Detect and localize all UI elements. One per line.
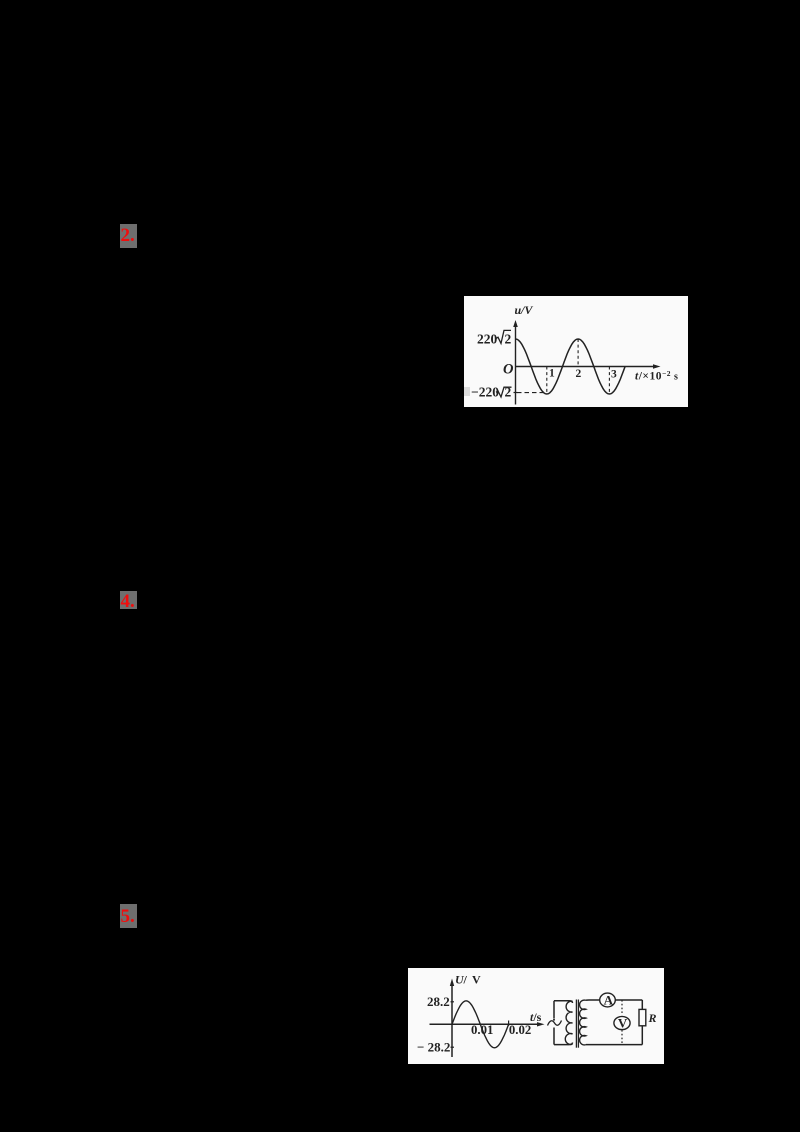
- wire: primary left conductor (bottom half): [553, 1028, 555, 1045]
- svg-text:V: V: [618, 1016, 628, 1031]
- svg-text:/V: /V: [520, 303, 533, 317]
- svg-text:t/s: t/s: [530, 1010, 542, 1024]
- figure: U-t graph + transformer circuit: [408, 968, 664, 1064]
- dashed line to trough t=1: [517, 392, 547, 394]
- wire: primary top: [554, 1001, 573, 1003]
- dashed vertical t=3: [608, 367, 610, 394]
- transformer core line 1: [575, 1000, 577, 1048]
- svg-text:V: V: [472, 973, 481, 987]
- cosine curve u(t): [516, 339, 626, 394]
- dashed vertical t=2: [577, 339, 579, 367]
- voltmeter branch dotted (bottom): [621, 1030, 623, 1045]
- AC source squiggle: [548, 1021, 562, 1026]
- t-axis: [430, 1023, 542, 1025]
- wire: primary bottom: [554, 1043, 573, 1045]
- question number 2 (red on gray): [120, 224, 137, 248]
- svg-text:A: A: [604, 993, 614, 1008]
- transformer core line 2: [577, 1000, 579, 1048]
- question number 4 (red on gray): [120, 591, 137, 609]
- transformer secondary coil (5 turns): [580, 1000, 586, 1045]
- svg-text:220: 220: [477, 332, 498, 347]
- voltmeter V: [614, 1016, 630, 1029]
- tick at 0.02: [508, 1021, 510, 1027]
- svg-text:2: 2: [505, 332, 512, 347]
- wire: right side below resistor: [641, 1026, 643, 1045]
- svg-text:t/×10−2 s: t/×10−2 s: [635, 369, 678, 383]
- ammeter A: [600, 993, 616, 1007]
- svg-text:R: R: [648, 1011, 657, 1025]
- voltmeter branch dotted (top): [621, 1000, 623, 1015]
- wire: secondary bottom: [586, 1044, 642, 1046]
- svg-text:− 28.2: − 28.2: [417, 1039, 450, 1054]
- tick at -220sqrt2: [514, 392, 518, 394]
- wire: primary left conductor (top half): [553, 1001, 555, 1019]
- t-axis: [516, 366, 658, 368]
- figure: AC voltage u-t graph: [464, 296, 688, 407]
- wire: secondary top (ammeter to corner): [615, 999, 642, 1001]
- svg-text:/: /: [463, 973, 468, 987]
- dashed vertical t=1: [546, 367, 548, 393]
- resistor R: [639, 1009, 646, 1025]
- y-axis u/V: [515, 323, 517, 405]
- transformer primary coil (4 turns): [565, 1001, 572, 1044]
- wire: right side above resistor: [641, 1000, 643, 1009]
- y-axis U/V: [451, 982, 453, 1057]
- svg-text:2: 2: [576, 368, 582, 380]
- svg-text:28.2: 28.2: [427, 994, 450, 1009]
- svg-text:3: 3: [611, 369, 617, 381]
- sine curve U(t): [452, 1001, 509, 1048]
- svg-text:2: 2: [505, 385, 512, 400]
- question number 5 (red on gray): [120, 904, 137, 928]
- svg-text:O: O: [503, 362, 514, 378]
- wire: secondary top (coil to ammeter): [586, 999, 600, 1001]
- svg-text:−220: −220: [471, 385, 499, 400]
- svg-text:1: 1: [549, 368, 555, 380]
- svg-text:0.02: 0.02: [509, 1023, 531, 1037]
- scan artifact gray patch: [464, 387, 470, 396]
